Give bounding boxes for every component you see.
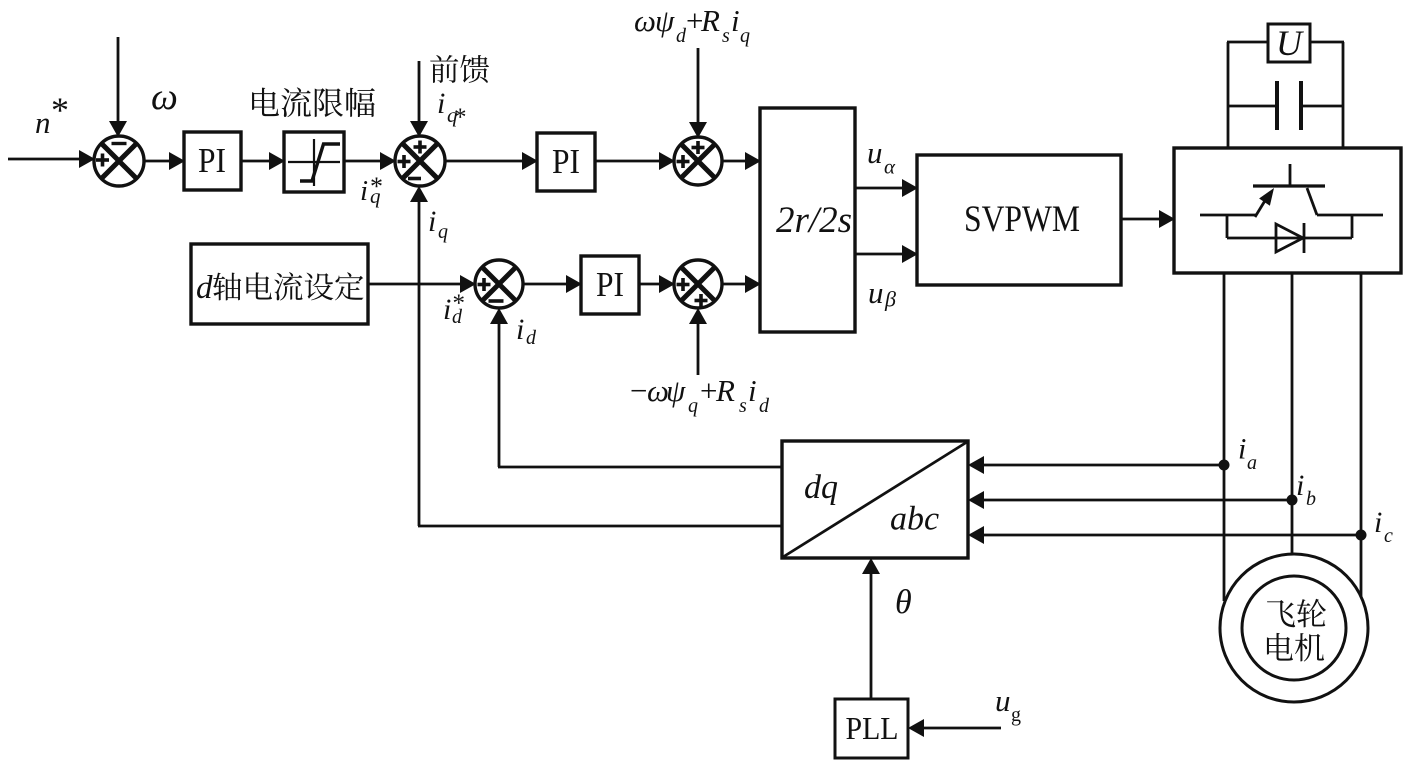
- wire ib feedback to dq-abc: [968, 491, 1292, 509]
- svg-text:u: u: [867, 135, 883, 170]
- summing junction S2: [395, 136, 445, 186]
- wire decoupling term into S5 bottom: [689, 308, 707, 375]
- svg-text:c: c: [1384, 525, 1393, 547]
- label id* reference: [443, 290, 465, 328]
- wire omega feedback into S1 top: [109, 37, 178, 137]
- transistor IGBT emitter arrow: [1255, 188, 1274, 217]
- svg-text:β: β: [884, 287, 896, 312]
- svg-text:2r/2s: 2r/2s: [776, 200, 852, 241]
- svg-text:n: n: [35, 105, 51, 140]
- wire PI3 to S5: [639, 275, 675, 293]
- svg-text:SVPWM: SVPWM: [964, 198, 1080, 239]
- svg-text:s: s: [722, 25, 730, 47]
- sign plus on S3 left: [677, 155, 690, 168]
- sign plus on S2 top: [414, 141, 427, 154]
- wire u-beta 2r2s to SVPWM: [855, 245, 918, 263]
- wire decoupling term into S3 top: [689, 48, 707, 138]
- wire u-alpha 2r2s to SVPWM: [855, 179, 918, 197]
- wire IGBT right lead: [1317, 214, 1383, 217]
- svg-text:U: U: [1276, 23, 1304, 63]
- wire S3 to 2r2s upper input: [722, 152, 761, 170]
- svg-text:i: i: [1374, 506, 1382, 539]
- svg-text:*: *: [51, 90, 69, 130]
- sign plus on S3 top: [692, 141, 705, 154]
- wire SVPWM to inverter: [1121, 210, 1175, 228]
- wire capacitor left lead: [1228, 105, 1278, 108]
- limiter block saturation: [284, 132, 344, 192]
- PI block PI1 speed regulator: [184, 132, 241, 190]
- svg-text:u: u: [868, 275, 884, 310]
- svg-text:i: i: [443, 293, 451, 326]
- svg-text:b: b: [1306, 488, 1316, 510]
- wire S2 to PI2: [445, 152, 538, 170]
- block SVPWM: [917, 155, 1121, 285]
- svg-text:q: q: [740, 25, 750, 47]
- wire S4 to PI3: [523, 275, 582, 293]
- label u-beta: [868, 275, 896, 312]
- summing junction S5: [674, 260, 722, 308]
- sign plus on S2 left: [398, 155, 411, 168]
- label ib: [1296, 469, 1316, 510]
- svg-text:−: −: [628, 373, 649, 408]
- wire dbox to S4: [368, 275, 476, 293]
- svg-text:abc: abc: [890, 501, 939, 538]
- wire S1 to PI1: [144, 152, 185, 170]
- label dianji motor: [1267, 633, 1324, 662]
- svg-text:a: a: [1247, 452, 1257, 474]
- svg-text:d: d: [759, 395, 770, 417]
- label minus omega-psi-q plus Rs id: [628, 373, 770, 417]
- summing junction S4: [475, 260, 523, 308]
- diode D freewheeling: [1276, 223, 1304, 253]
- sign plus on S4 left: [478, 278, 491, 291]
- wire phase a leg: [1223, 273, 1226, 601]
- PI block PI2 q-axis current regulator: [537, 133, 595, 191]
- label dianliu-xianfu current limiter: [252, 87, 375, 117]
- svg-text:g: g: [1011, 704, 1021, 726]
- node ib current tap: [1287, 495, 1298, 506]
- d-axis current setting block: [191, 244, 368, 324]
- svg-text:i: i: [1296, 469, 1304, 502]
- node ic current tap: [1356, 530, 1367, 541]
- sign minus on S1 top: [112, 142, 127, 145]
- label omega-psi-d plus Rs iq: [634, 3, 750, 47]
- summing junction S3: [674, 137, 722, 185]
- label u-alpha: [867, 135, 896, 179]
- svg-text:u: u: [995, 683, 1011, 718]
- label iq: [428, 205, 448, 243]
- block U DC voltage: [1268, 23, 1310, 63]
- PI block PI3 d-axis current regulator: [581, 256, 639, 314]
- wire ug into PLL: [908, 719, 1001, 737]
- wire theta PLL to dq-abc: [862, 558, 880, 699]
- svg-text:q: q: [688, 395, 698, 417]
- block inverter: [1174, 148, 1401, 273]
- sign minus on S2 bottom: [408, 177, 421, 181]
- svg-text:*: *: [454, 104, 467, 131]
- summing junction S1: [94, 136, 144, 186]
- wire PI1 to limiter: [241, 152, 285, 170]
- svg-text:α: α: [884, 155, 896, 179]
- label iq* feedforward current: [437, 87, 467, 131]
- wire PI2 to S3: [595, 152, 675, 170]
- svg-text:i: i: [748, 373, 757, 408]
- wire DC bus top right segment: [1309, 41, 1344, 44]
- wire iq output dq-abc to S2 path: [418, 525, 782, 528]
- sign plus on S5 bottom: [695, 294, 708, 307]
- block dq-abc transform: [782, 441, 968, 558]
- wire IGBT left lead: [1200, 214, 1257, 217]
- svg-text:ψ: ψ: [666, 373, 686, 408]
- svg-text:d: d: [196, 270, 213, 306]
- svg-text:q: q: [370, 184, 381, 208]
- wire ic feedback to dq-abc: [968, 526, 1361, 544]
- label feilun flywheel: [1267, 599, 1326, 628]
- block 2r/2s rotating to stationary transform: [760, 108, 855, 332]
- label id: [516, 313, 537, 349]
- wire phase c leg: [1360, 273, 1363, 597]
- wire diode loop bottom: [1227, 237, 1352, 240]
- block PLL: [835, 699, 908, 758]
- label ug grid voltage: [995, 683, 1021, 726]
- svg-text:d: d: [452, 306, 463, 328]
- transistor IGBT top bar: [1253, 184, 1325, 187]
- svg-text:PI: PI: [552, 142, 580, 181]
- svg-text:R: R: [715, 373, 735, 408]
- wire iq feedback up into S2 bottom: [410, 186, 428, 526]
- svg-text:θ: θ: [895, 584, 912, 621]
- svg-text:ψ: ψ: [655, 3, 675, 38]
- svg-text:s: s: [739, 395, 747, 417]
- label qiankui feedforward: [430, 55, 489, 83]
- svg-text:i: i: [1238, 433, 1246, 466]
- wire qiankui feedforward into S2 top: [410, 61, 428, 137]
- svg-text:q: q: [438, 221, 448, 243]
- svg-text:dq: dq: [804, 469, 838, 506]
- svg-text:ω: ω: [151, 76, 178, 118]
- wire id output dq-abc to S4 path: [498, 466, 782, 469]
- svg-text:d: d: [526, 327, 537, 349]
- wire DC bus right: [1342, 42, 1345, 149]
- wire DC bus top left segment: [1227, 41, 1269, 44]
- transistor IGBT right slant: [1307, 188, 1317, 215]
- machine flywheel motor inner: [1242, 576, 1346, 680]
- sign minus on S4 bottom: [489, 299, 504, 303]
- label theta: [895, 584, 912, 621]
- svg-text:i: i: [360, 175, 368, 207]
- svg-text:PLL: PLL: [846, 710, 899, 746]
- wire id feedback up into S4 bottom: [490, 308, 508, 467]
- wire DC bus left: [1227, 42, 1230, 149]
- wire phase b leg: [1291, 273, 1294, 554]
- node ia current tap: [1219, 460, 1230, 471]
- capacitor C plates: [1277, 81, 1301, 130]
- svg-text:i: i: [516, 313, 524, 346]
- svg-text:R: R: [700, 3, 720, 38]
- label ic: [1374, 506, 1393, 547]
- svg-text:i: i: [428, 205, 436, 238]
- machine flywheel motor outer: [1220, 554, 1368, 702]
- wire S5 to 2r2s lower input: [722, 275, 761, 293]
- wire diode loop right: [1351, 214, 1354, 238]
- sign plus on S5 left: [677, 278, 690, 291]
- svg-text:ω: ω: [634, 3, 656, 38]
- wire ia feedback to dq-abc: [968, 456, 1224, 474]
- label ia: [1238, 433, 1257, 475]
- wire limiter to S2 with label iq*: [344, 152, 396, 208]
- transistor IGBT collector lead: [1289, 164, 1292, 187]
- sign plus on S1 left: [96, 154, 109, 167]
- wire diode loop left: [1226, 214, 1229, 238]
- svg-text:i: i: [437, 87, 445, 120]
- node n* speed reference input wire: [8, 90, 95, 168]
- svg-text:i: i: [731, 3, 740, 38]
- svg-text:PI: PI: [198, 141, 226, 180]
- wire capacitor right lead: [1300, 105, 1343, 108]
- svg-text:PI: PI: [596, 265, 624, 304]
